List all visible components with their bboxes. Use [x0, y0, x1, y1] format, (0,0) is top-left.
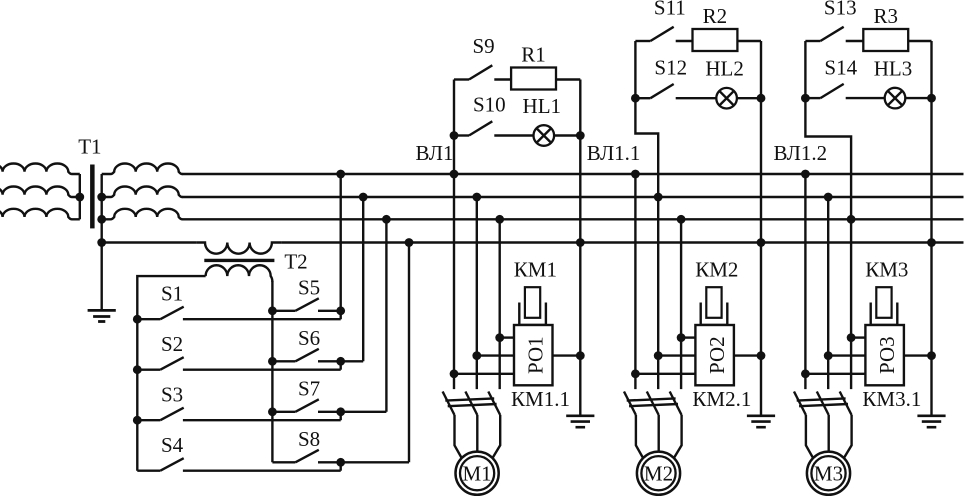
node T1 neutral to line 4 — [97, 238, 106, 247]
node top pin on phase C — [847, 333, 856, 342]
wire T1 secondary star point / neutral riser — [100, 174, 102, 310]
wire phase B drop branch 1 — [476, 197, 478, 389]
switch S14 — [805, 84, 884, 98]
node T1 secondary neutral (phase C) — [97, 215, 106, 224]
svg-text:М1: М1 — [463, 462, 492, 486]
switch S6 — [272, 349, 363, 362]
node right leg on bus N — [757, 238, 766, 247]
wire РО2 top pin — [681, 336, 695, 338]
wire РО3 right pin — [904, 354, 932, 356]
node top pin on phase C — [495, 333, 504, 342]
node right leg at РО2 — [757, 351, 766, 360]
svg-text:КМ3.1: КМ3.1 — [862, 387, 921, 411]
svg-text:S11: S11 — [654, 0, 686, 20]
contact group КМ2.1 — [624, 392, 682, 416]
node S1 on left column — [133, 315, 142, 324]
relay coil РО2 — [695, 325, 734, 385]
svg-text:S1: S1 — [161, 282, 183, 306]
svg-text:РО2: РО2 — [705, 336, 729, 374]
wire РО1 right pin — [553, 354, 581, 356]
switch S11 — [635, 27, 692, 41]
switch S8 — [272, 450, 409, 463]
node T1 secondary neutral (phase B) — [97, 193, 106, 202]
wire phase A drop branch 3 — [804, 174, 806, 389]
switch S2 — [137, 357, 340, 370]
node S10 left junction — [450, 131, 459, 140]
wire bus line N (left of T2) — [102, 241, 197, 243]
wire S13/S14 left column with jog — [805, 41, 851, 219]
node S7 on middle column — [268, 407, 277, 416]
transformer T1 label — [78, 135, 101, 159]
node phase A tap on L1 — [631, 170, 640, 179]
svg-text:S13: S13 — [824, 0, 857, 20]
wire РО3 bottom pin — [805, 373, 865, 375]
node middle pin on phase B — [824, 351, 833, 360]
node tap on bus N — [405, 238, 414, 247]
node S12 left junction — [631, 94, 640, 103]
switch S9 — [454, 65, 511, 79]
node T1 primary neutral — [75, 193, 84, 202]
wire tap from L2 to S6 — [362, 197, 364, 361]
node top pin on phase C — [677, 333, 686, 342]
wire РО2 bottom pin — [635, 373, 695, 375]
svg-text:ВЛ1: ВЛ1 — [416, 141, 454, 165]
svg-text:R1: R1 — [521, 43, 546, 67]
wire motor feeders branch 1 — [455, 415, 501, 457]
svg-text:S4: S4 — [161, 433, 184, 457]
node phase A tap on L1 — [801, 170, 810, 179]
svg-text:Т1: Т1 — [78, 135, 101, 159]
transformer T2 primary winding (in series with line N) — [197, 243, 282, 254]
svg-text:HL2: HL2 — [705, 57, 744, 81]
transformer T1 secondary winding (3 coils) — [102, 164, 183, 220]
node S5 output junction — [336, 306, 345, 315]
node S2 on left column — [133, 365, 142, 374]
wire HL3 to right leg — [905, 97, 931, 99]
wire tap from L3 to S7 — [385, 219, 387, 411]
svg-text:R2: R2 — [703, 4, 728, 28]
contact group КМ1.1 — [443, 392, 501, 416]
svg-text:S12: S12 — [654, 55, 687, 79]
wire right leg of branch 1 — [579, 80, 581, 416]
node tap on bus L2 — [359, 193, 368, 202]
switch S4 — [137, 458, 340, 471]
svg-text:РО1: РО1 — [524, 336, 548, 374]
node bottom pin on phase A — [631, 369, 640, 378]
svg-text:S2: S2 — [161, 332, 183, 356]
contact group КМ3.1 — [794, 392, 852, 416]
wire R3 to right leg — [908, 40, 931, 42]
wire S9/S10 left column — [453, 80, 455, 175]
node right leg on bus N — [927, 238, 936, 247]
svg-text:S9: S9 — [473, 34, 495, 58]
svg-text:М3: М3 — [814, 462, 843, 486]
svg-text:R3: R3 — [873, 4, 898, 28]
lamp HL2 — [716, 88, 737, 109]
node HL1 right junction — [576, 131, 585, 140]
node phase A tap on L1 — [450, 170, 459, 179]
wire РО1 bottom pin — [454, 373, 514, 375]
node phase C tap on L3 — [495, 215, 504, 224]
node phase C tap on L3 — [847, 215, 856, 224]
wire bus line N (right of T2) — [282, 241, 964, 243]
wire phase C drop branch 3 (below jog) — [850, 219, 852, 389]
resistor R2 — [693, 29, 738, 51]
svg-text:HL3: HL3 — [874, 57, 913, 81]
wire T2 secondary left lead / S1-S4 column — [137, 276, 205, 471]
switch S7 — [272, 399, 386, 412]
svg-text:ВЛ1.2: ВЛ1.2 — [773, 141, 827, 165]
wire S11/S12 left column with jog — [635, 41, 658, 197]
lamp HL1 — [534, 125, 555, 146]
wire bus line L3 — [182, 218, 964, 220]
svg-text:ВЛ1.1: ВЛ1.1 — [587, 141, 641, 165]
wire phase C drop branch 1 — [499, 219, 501, 389]
wire tap from L1 to S5/S1 — [340, 174, 342, 319]
wire riser S4 to S8 line — [340, 462, 342, 470]
node S6 on middle column — [268, 357, 277, 366]
contactor КМ3 actuator — [871, 287, 898, 325]
svg-text:S10: S10 — [473, 93, 506, 117]
switch S10 — [454, 121, 534, 135]
lamp HL3 — [885, 88, 906, 109]
node S14 left junction — [801, 94, 810, 103]
wire phase B drop branch 2 (below jog) — [657, 197, 659, 389]
svg-text:S14: S14 — [824, 55, 857, 79]
svg-text:КМ1: КМ1 — [514, 258, 557, 282]
wire riser S3 to S7 line — [340, 412, 342, 420]
svg-text:S3: S3 — [161, 383, 183, 407]
svg-text:КМ1.1: КМ1.1 — [511, 387, 570, 411]
wire phase C drop branch 2 — [680, 219, 682, 389]
wire HL1 to right leg — [554, 134, 580, 136]
svg-text:КМ3: КМ3 — [865, 258, 908, 282]
wire T2 secondary right lead / S5-S8 column — [271, 281, 273, 462]
wire РО3 top pin — [851, 336, 865, 338]
wire РО3 middle pin — [828, 354, 865, 356]
relay coil РО3 — [865, 325, 904, 385]
node phase B tap on L2 — [654, 193, 663, 202]
wire motor feeders branch 3 — [806, 415, 852, 457]
svg-text:КМ2: КМ2 — [695, 258, 738, 282]
node phase C tap on L3 — [677, 215, 686, 224]
transformer T1 primary winding (3 coils) — [0, 164, 80, 220]
ground (branch 2) — [747, 416, 775, 427]
node HL2 right junction — [757, 94, 766, 103]
ground (branch 1) — [566, 416, 594, 427]
wire РО2 right pin — [734, 354, 761, 356]
wire bus line L2 — [182, 196, 964, 198]
wire right leg of branch 2 — [760, 41, 762, 416]
transformer T2 core — [204, 259, 274, 262]
node phase B tap on L2 — [472, 193, 481, 202]
node bottom pin on phase A — [450, 369, 459, 378]
node HL3 right junction — [927, 94, 936, 103]
node tap on bus L3 — [382, 215, 391, 224]
motor М1 — [456, 452, 499, 495]
switch S5 — [272, 298, 340, 311]
svg-text:HL1: HL1 — [523, 94, 562, 118]
svg-text:S7: S7 — [298, 376, 320, 400]
switch S1 — [137, 307, 340, 320]
node tap on bus L1 — [336, 170, 345, 179]
node S3 on left column — [133, 416, 142, 425]
resistor R3 — [863, 29, 908, 51]
wire phase A drop branch 2 — [634, 174, 636, 389]
wire РО1 middle pin — [477, 354, 514, 356]
node right leg at РО3 — [927, 351, 936, 360]
relay coil РО1 — [514, 325, 553, 385]
contactor КМ1 actuator — [519, 287, 546, 325]
node phase B tap on L2 — [824, 193, 833, 202]
node right leg at РО1 — [576, 351, 585, 360]
svg-text:S6: S6 — [298, 326, 320, 350]
svg-text:КМ2.1: КМ2.1 — [692, 387, 751, 411]
wire phase B drop branch 3 — [827, 197, 829, 389]
wire R2 to right leg — [737, 40, 761, 42]
transformer T1 core — [90, 165, 95, 229]
switch S13 — [805, 27, 863, 41]
wire bus line L1 — [182, 173, 964, 175]
wire riser S2 to S6 line — [340, 361, 342, 369]
switch S12 — [635, 84, 716, 98]
svg-text:S8: S8 — [298, 427, 320, 451]
node middle pin on phase B — [654, 351, 663, 360]
node S5 on middle column — [268, 306, 277, 315]
wire РО2 middle pin — [658, 354, 695, 356]
wire right leg of branch 3 — [930, 41, 932, 416]
motor М2 — [637, 452, 680, 495]
wire T1 primary star point — [79, 174, 81, 219]
svg-text:Т2: Т2 — [284, 250, 307, 274]
node S6 output junction — [336, 357, 345, 366]
node S8 output junction — [336, 458, 345, 467]
contactor КМ2 actuator — [701, 287, 728, 325]
svg-text:S5: S5 — [298, 275, 320, 299]
ground (branch 3) — [917, 416, 945, 427]
wire phase A drop branch 1 — [453, 174, 455, 389]
switch S3 — [137, 408, 340, 421]
wire R1 to right leg — [556, 78, 580, 80]
node right leg on bus N — [576, 238, 585, 247]
resistor R1 — [511, 68, 556, 90]
ground (T1 neutral) — [88, 310, 116, 321]
svg-text:М2: М2 — [644, 462, 673, 486]
wire motor feeders branch 2 — [636, 415, 682, 457]
transformer T2 secondary winding — [206, 265, 273, 282]
node S7 output junction — [336, 407, 345, 416]
wire HL2 to right leg — [737, 97, 761, 99]
wire tap from line N to S8 — [408, 243, 410, 463]
motor М3 — [807, 452, 850, 495]
svg-text:РО3: РО3 — [875, 336, 899, 374]
node bottom pin on phase A — [801, 369, 810, 378]
node middle pin on phase B — [472, 351, 481, 360]
wire РО1 top pin — [500, 336, 514, 338]
